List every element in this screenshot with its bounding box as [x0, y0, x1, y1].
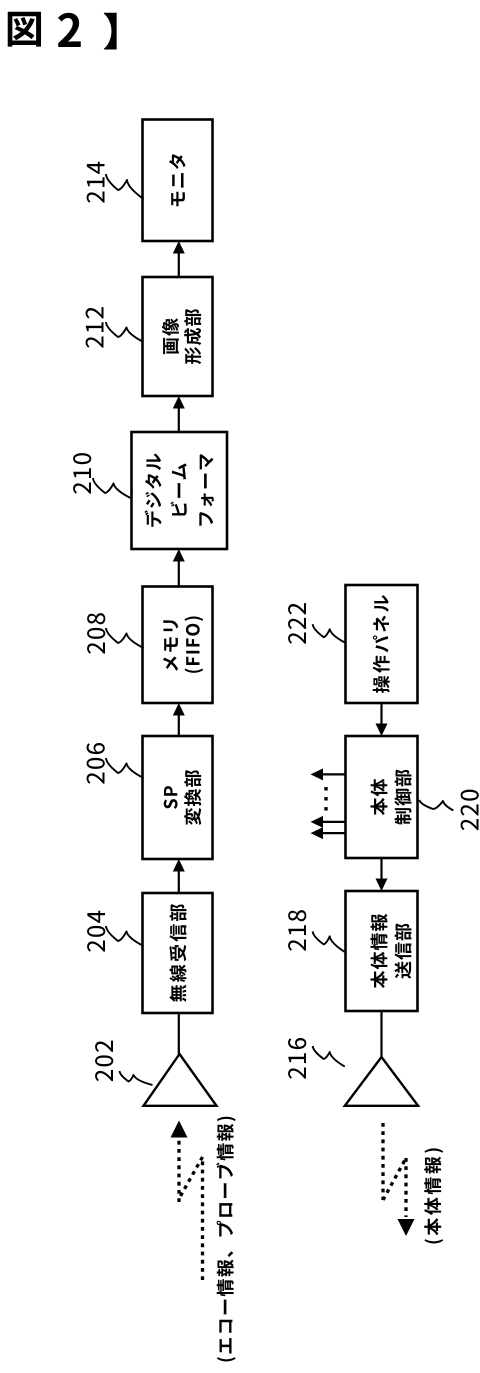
arrow SP変換部 to メモリ [173, 703, 185, 736]
control arrow up 2 [311, 816, 346, 828]
label 206 [87, 743, 105, 784]
leader squiggle 206 [106, 758, 144, 778]
wire antenna202 to 無線受信部 [178, 1012, 180, 1055]
leader squiggle 214 [106, 174, 144, 199]
arrow 画像形成部 to モニタ [173, 241, 185, 277]
leader squiggle 210 [93, 478, 131, 498]
block 208 メモリ(FIFO) (FIFO memory) [143, 587, 213, 704]
block 206 SP変換部 (SP converter) [143, 736, 213, 859]
wire antenna216 to 本体情報送信部 [380, 1010, 382, 1058]
leader squiggle 220 [419, 800, 453, 811]
ellipsis dots between control arrows [324, 787, 327, 810]
dotted zigzag arrow outgoing signal from antenna 216 [383, 1123, 415, 1236]
block 210 デジタルビームフォーマ (digital beam former) [132, 432, 228, 549]
block 212 画像形成部 (image forming unit) [143, 277, 213, 396]
block 218 本体情報送信部 (body info transmitter) [346, 891, 418, 1011]
label 208 [87, 613, 105, 654]
label 218 [288, 910, 306, 951]
leader squiggle 208 [106, 628, 144, 648]
label 214 [87, 162, 105, 203]
label 216 [288, 1038, 306, 1079]
leader squiggle 218 [313, 931, 345, 952]
arrow デジタルビームフォーマ to 画像形成部 [173, 396, 185, 432]
leader squiggle 204 [106, 926, 144, 946]
figure title 図2】 [8, 12, 116, 49]
label 222 [288, 603, 306, 644]
arrow 操作パネル to 本体制御部 [376, 703, 388, 736]
label 204 [87, 911, 105, 952]
leader squiggle 216 [313, 1046, 345, 1067]
antenna 216 (body info transmit antenna symbol) [345, 1057, 418, 1106]
label 210 [73, 453, 91, 494]
leader squiggle 212 [106, 322, 144, 342]
caption (エコー情報、プローブ情報) [216, 1117, 235, 1362]
dotted zigzag arrow incoming signal to antenna 202 [171, 1121, 203, 1281]
leader squiggle 222 [313, 624, 345, 642]
antenna 202 (probe receive antenna symbol) [144, 1054, 217, 1106]
leader squiggle 202 [120, 1071, 153, 1085]
arrow 無線受信部 to SP変換部 [173, 859, 185, 893]
block 222 操作パネル (operation panel) [346, 585, 418, 703]
rotated diagram group (drawn in landscape, rotated 90deg CCW) [73, 120, 479, 1362]
label 220 [461, 790, 479, 831]
caption (本体情報) [424, 1148, 443, 1243]
block 204 無線受信部 (wireless receiver) [143, 893, 213, 1013]
arrow メモリ to デジタルビームフォーマ [173, 549, 185, 587]
label 212 [86, 307, 104, 348]
block 214 モニタ (monitor) [143, 120, 213, 242]
control arrow up 1 [311, 768, 346, 780]
control arrow up 3 [311, 827, 346, 839]
block 220 本体制御部 (main controller) [346, 736, 418, 858]
label 202 [95, 1041, 113, 1082]
arrow 本体制御部 to 本体情報送信部 [376, 858, 388, 891]
